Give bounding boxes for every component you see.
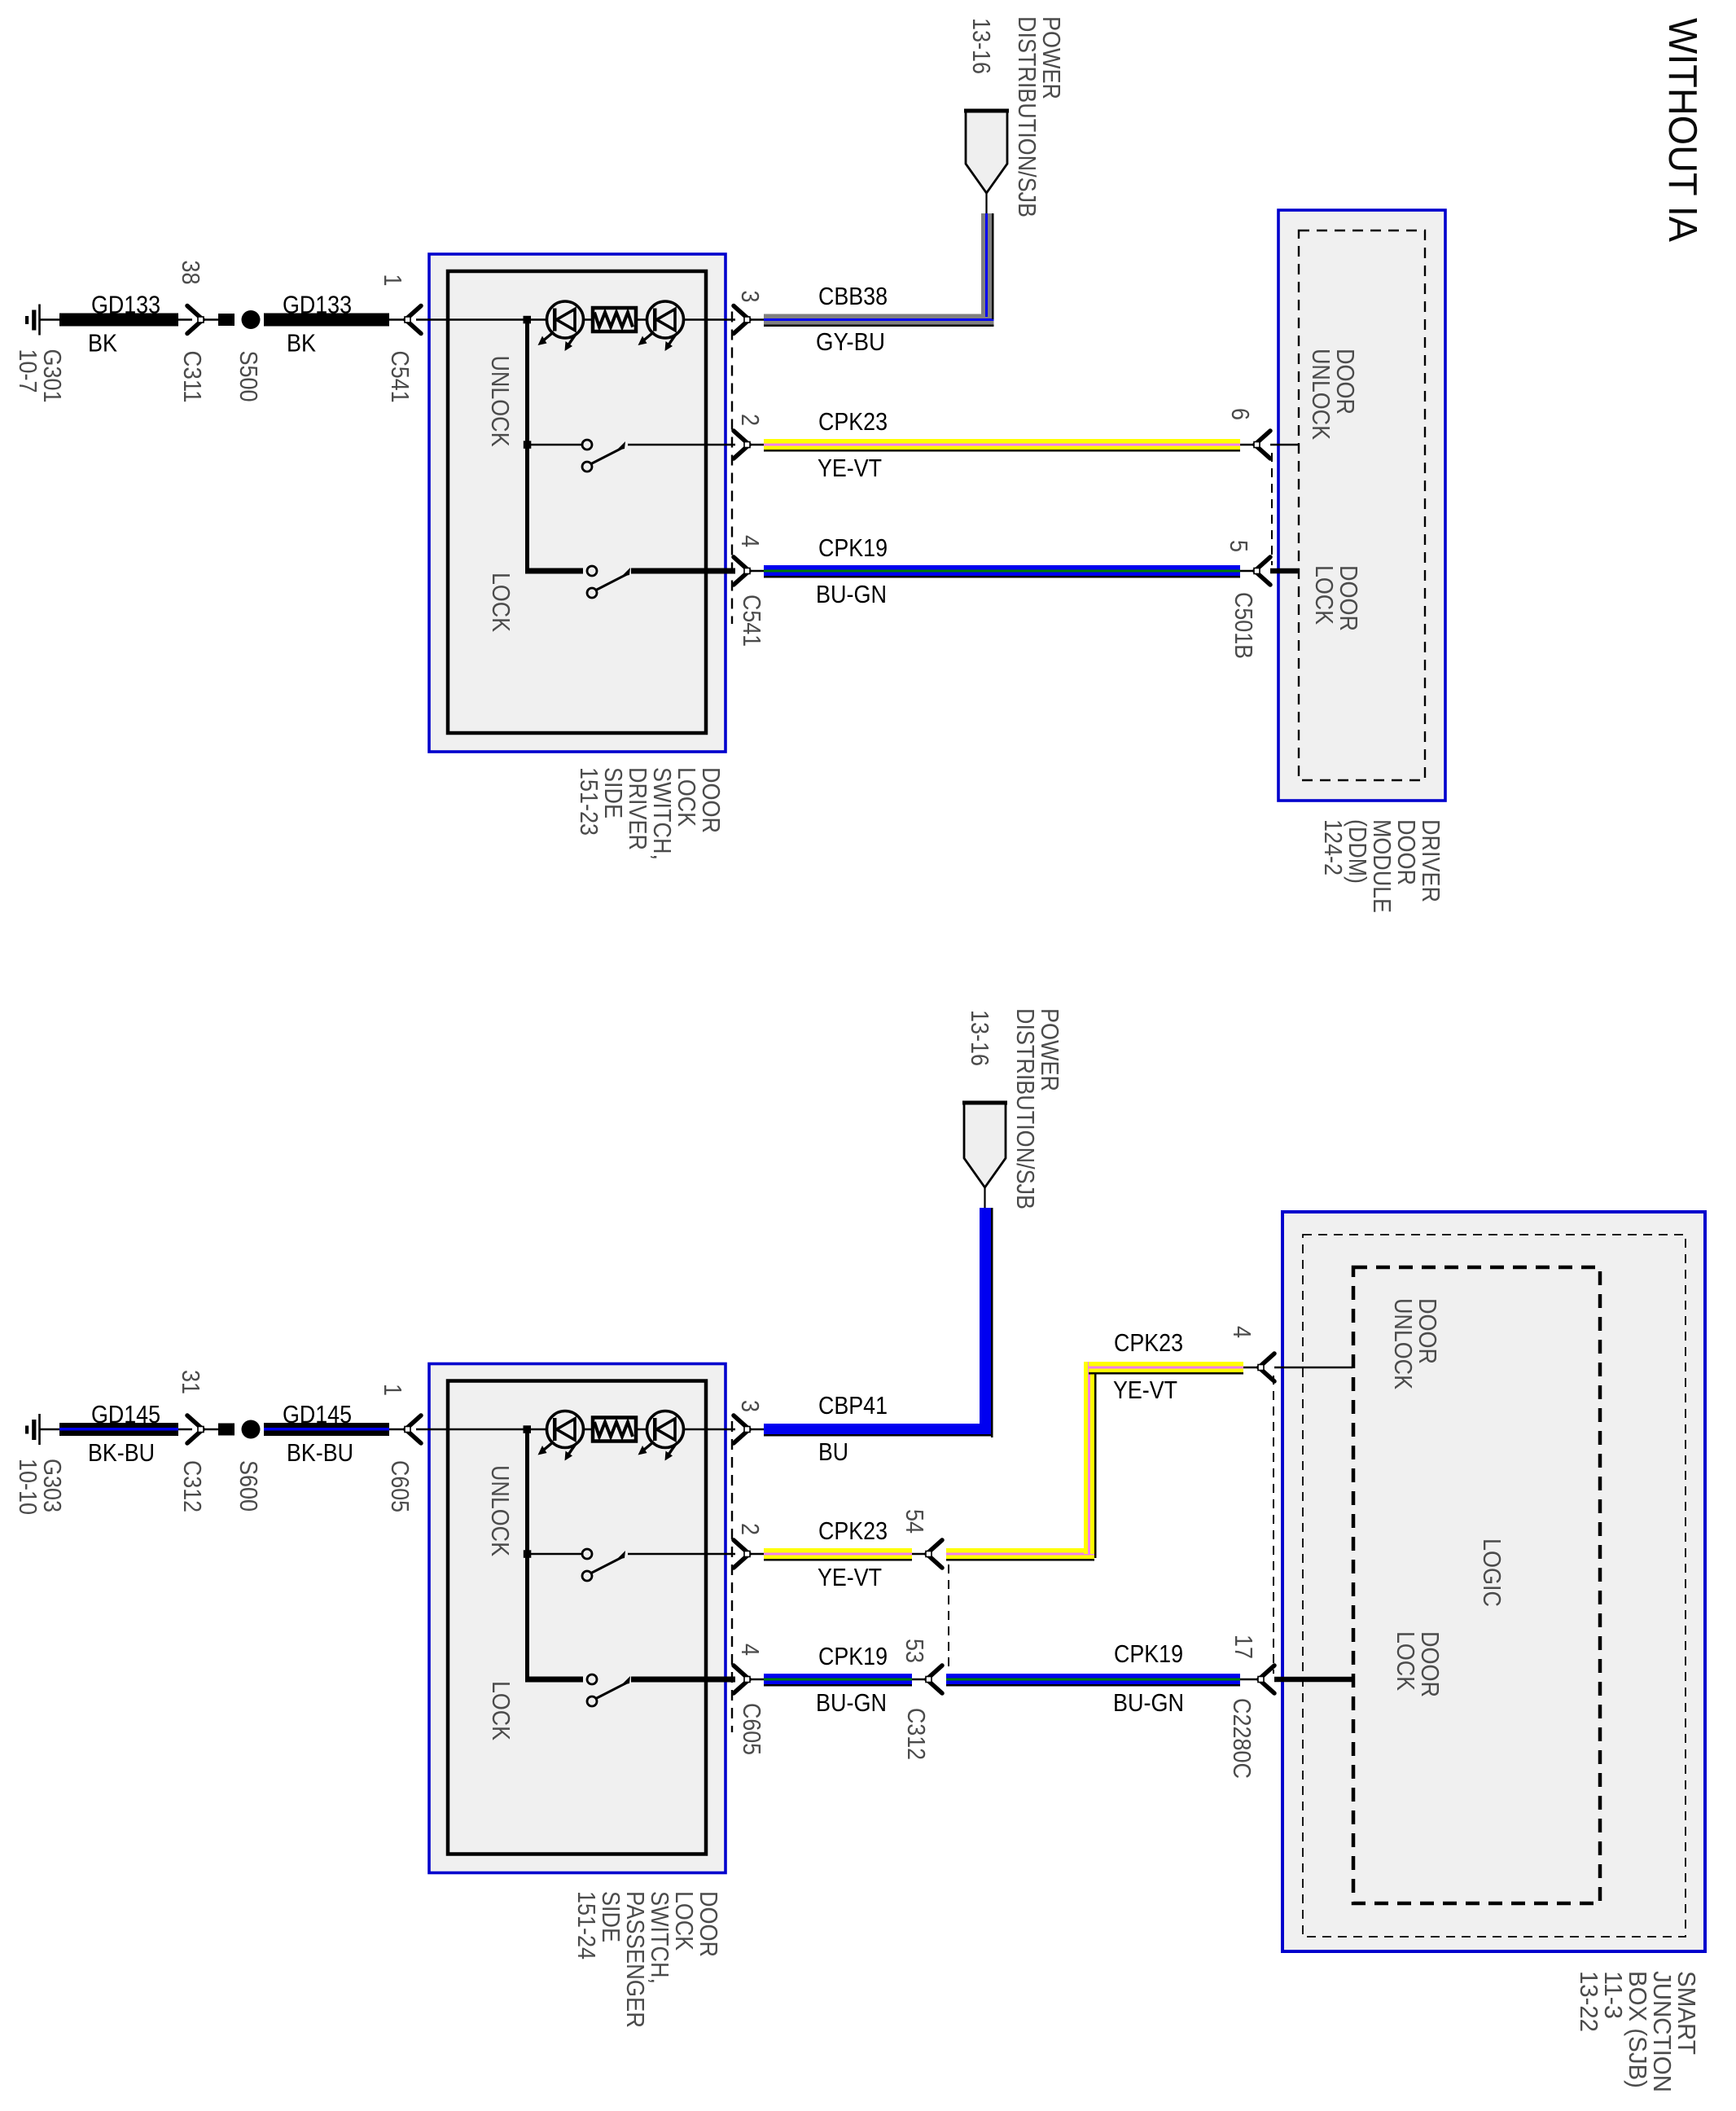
svg-text:3: 3 [736,1400,765,1412]
svg-text:GY-BU: GY-BU [816,327,885,356]
svg-text:C312: C312 [178,1460,207,1512]
wire CPK19 BU-GN (passenger, switch side) [751,1642,925,1717]
wire CPK23 YE-VT (passenger, switch side) [751,1516,925,1591]
connector C312 pin 31 [177,1370,207,1512]
DDM pin 6 DOOR UNLOCK [1226,349,1360,459]
svg-text:GD133: GD133 [283,291,352,319]
svg-text:C605: C605 [738,1703,766,1755]
title WITHOUT IA [1660,18,1704,242]
svg-text:S500: S500 [235,351,263,402]
svg-text:CPK23: CPK23 [1114,1328,1183,1357]
svg-text:C2280C: C2280C [1228,1698,1256,1779]
indicator lamp left [538,301,584,351]
connector C2280C dashed [1273,1376,1274,1674]
door lock switch box [429,254,726,752]
label DOOR LOCK SWITCH PASSENGER SIDE [572,1891,723,2028]
svg-text:BK-BU: BK-BU [88,1438,155,1467]
svg-text:LOCK: LOCK [487,573,515,632]
wire unlock feed row [416,1425,735,1433]
svg-text:5: 5 [1225,540,1253,552]
svg-text:UNLOCK: UNLOCK [1389,1298,1418,1389]
svg-text:WITHOUT IA: WITHOUT IA [1660,18,1704,242]
connector C541 switch side [732,291,766,647]
door lock switch box [429,1364,726,1873]
wire internal bus [524,1429,532,1679]
svg-text:4: 4 [736,535,765,547]
svg-text:S600: S600 [235,1460,263,1512]
power distribution SJB feed (bottom) [962,1008,1064,1209]
svg-text:1: 1 [379,274,407,287]
label LOCK [487,573,515,632]
wire CBB38 GY-BU [751,213,994,356]
connector C311 pin 38 [177,261,207,403]
svg-text:YE-VT: YE-VT [818,1563,882,1591]
svg-text:UNLOCK: UNLOCK [486,1465,515,1556]
label LOGIC [1478,1538,1506,1607]
svg-text:CPK19: CPK19 [1114,1639,1183,1668]
svg-text:CBP41: CBP41 [818,1391,888,1420]
svg-text:BU-GN: BU-GN [816,580,887,608]
svg-text:BU-GN: BU-GN [816,1688,887,1717]
wire CPK19 BU-GN (driver) [751,533,1253,608]
smart junction box [1282,1212,1705,1951]
svg-text:YE-VT: YE-VT [1113,1376,1177,1404]
SJB pin 17 DOOR LOCK [1228,1631,1444,1779]
connector C605 pin 1 [379,1384,421,1512]
svg-text:GD145: GD145 [91,1400,160,1429]
svg-text:10-10: 10-10 [14,1459,42,1515]
svg-text:31: 31 [177,1370,205,1394]
indicator lamp right [638,1411,684,1461]
power distribution SJB feed (top) [964,16,1066,217]
label DOOR LOCK SWITCH DRIVER SIDE [575,767,726,860]
svg-text:4: 4 [1228,1326,1256,1338]
svg-text:2: 2 [736,1523,765,1535]
svg-text:53: 53 [901,1639,929,1663]
svg-text:54: 54 [901,1509,929,1534]
wire internal bus [524,320,532,572]
ground G301 [14,305,67,403]
svg-text:GD145: GD145 [283,1400,352,1429]
svg-text:124-2: 124-2 [1319,819,1348,876]
label DRIVER DOOR MODULE [1319,819,1445,913]
wire CPK23 YE-VT (SJB side) [946,1328,1257,1561]
svg-text:2: 2 [736,414,765,426]
svg-text:CPK23: CPK23 [818,407,888,436]
svg-text:C501B: C501B [1230,592,1258,659]
unlock switch [529,440,735,472]
svg-text:4: 4 [736,1644,765,1656]
unlock switch [529,1549,735,1581]
svg-text:GD133: GD133 [91,291,160,319]
svg-text:1: 1 [379,1384,407,1396]
svg-text:BK: BK [88,329,117,358]
svg-text:DISTRIBUTION/SJB: DISTRIBUTION/SJB [1011,1008,1040,1209]
svg-text:C311: C311 [178,351,207,403]
label SMART JUNCTION BOX [1575,1971,1701,2092]
svg-text:YE-VT: YE-VT [818,454,882,482]
svg-text:17: 17 [1230,1635,1258,1659]
svg-text:BU-GN: BU-GN [1113,1688,1184,1717]
svg-text:DISTRIBUTION/SJB: DISTRIBUTION/SJB [1013,16,1041,217]
DDM pin 5 DOOR LOCK [1225,540,1363,659]
label LOCK [487,1681,515,1740]
wire GD133 BK segment 1 [59,291,178,358]
svg-text:3: 3 [736,291,765,303]
svg-text:13-16: 13-16 [966,1010,994,1066]
svg-text:151-24: 151-24 [572,1891,601,1960]
connector C501B dashed [1271,453,1273,565]
driver door module box [1278,210,1445,801]
svg-text:LOCK: LOCK [487,1681,515,1740]
svg-text:UNLOCK: UNLOCK [1307,349,1335,440]
svg-text:6: 6 [1226,408,1255,420]
label UNLOCK [486,1465,515,1556]
ground G303 [14,1414,67,1515]
wire CBP41 BU [751,1208,993,1466]
svg-text:UNLOCK: UNLOCK [486,356,515,447]
wire GD145 BK-BU segment 2 [264,1400,389,1467]
indicator lamp right [638,301,684,351]
wire CPK23 YE-VT (driver) [751,407,1253,482]
svg-text:38: 38 [177,261,205,285]
svg-text:CPK19: CPK19 [818,533,888,562]
svg-text:C312: C312 [902,1708,931,1760]
svg-text:13-22: 13-22 [1575,1971,1603,2032]
svg-text:10-7: 10-7 [14,349,42,393]
wire unlock feed row [416,316,735,324]
svg-text:151-23: 151-23 [575,767,603,836]
svg-text:C541: C541 [386,351,414,403]
svg-text:C541: C541 [738,595,766,647]
svg-text:LOGIC: LOGIC [1478,1538,1506,1607]
splice S600 [204,1420,263,1512]
svg-text:C605: C605 [386,1460,414,1512]
svg-text:BU: BU [818,1437,848,1466]
lock switch [525,1674,735,1706]
label UNLOCK [486,356,515,447]
SJB pin 4 DOOR UNLOCK [1228,1298,1442,1389]
connector C312 pins 54/53 [901,1509,949,1760]
svg-text:13-16: 13-16 [967,18,996,74]
svg-text:CBB38: CBB38 [818,282,888,310]
connector C605 switch side [732,1400,766,1755]
svg-text:BK: BK [287,329,316,358]
wire GD133 BK segment 2 [264,291,389,358]
svg-text:CPK23: CPK23 [818,1516,888,1545]
indicator lamp left [538,1411,584,1461]
svg-text:BK-BU: BK-BU [287,1438,353,1467]
resistor [593,308,636,331]
svg-text:LOCK: LOCK [1392,1631,1420,1691]
connector C541 pin 1 [379,274,421,403]
resistor [593,1418,636,1442]
svg-text:CPK19: CPK19 [818,1642,888,1670]
wire CPK19 BU-GN (SJB side) [946,1639,1257,1717]
splice S500 [204,310,263,402]
wire GD145 BK-BU segment 1 [59,1400,178,1467]
svg-text:LOCK: LOCK [1310,565,1339,625]
lock switch [525,566,735,598]
